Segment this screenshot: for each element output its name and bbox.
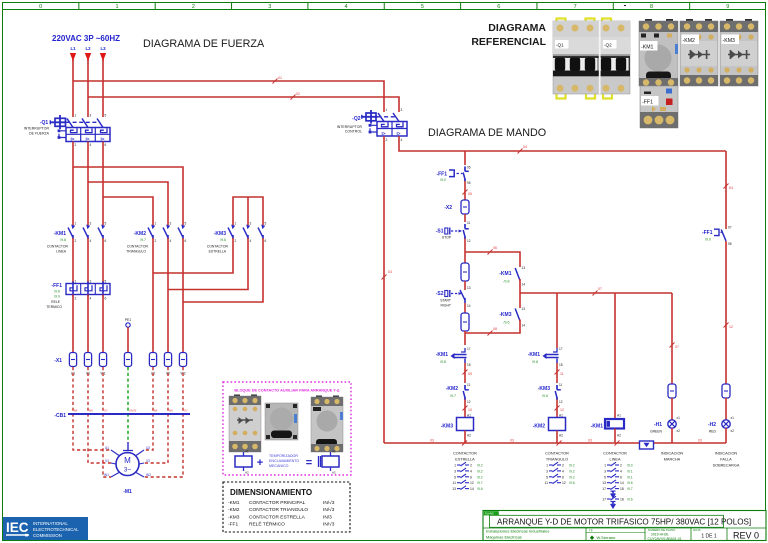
svg-text:BN: BN	[169, 409, 173, 413]
svg-text:4: 4	[250, 239, 252, 243]
svg-text:GREEN: GREEN	[650, 430, 663, 434]
svg-text:13: 13	[467, 286, 471, 290]
svg-text:DE FUERZA: DE FUERZA	[29, 131, 50, 135]
svg-text:-FF1: -FF1	[642, 100, 653, 106]
svg-text:3: 3	[90, 222, 92, 226]
svg-text:3: 3	[170, 222, 172, 226]
svg-text:W1: W1	[104, 473, 109, 477]
svg-text:14: 14	[467, 304, 471, 308]
svg-text:CONTACTOR PRINCIPAL: CONTACTOR PRINCIPAL	[249, 500, 306, 506]
svg-text:ARRANQUE Y-D DE MOTOR TRIFASIC: ARRANQUE Y-D DE MOTOR TRIFASICO 75HP/ 38…	[497, 517, 751, 526]
svg-text:-KM2: -KM2	[134, 231, 146, 237]
svg-text:-KM1: -KM1	[54, 231, 66, 237]
svg-text:0: 0	[39, 4, 42, 10]
KM3 NC contact 11-12	[538, 383, 563, 404]
pushbutton S1 STOP	[436, 221, 471, 243]
svg-text:96: 96	[467, 181, 471, 185]
svg-text:4: 4	[345, 4, 348, 10]
svg-text:x2: x2	[677, 429, 681, 433]
svg-text:9: 9	[726, 4, 729, 10]
svg-text:14: 14	[620, 481, 624, 485]
svg-text:-S1: -S1	[436, 229, 444, 235]
svg-text:/9.8: /9.8	[504, 280, 510, 284]
wire 07	[520, 292, 672, 294]
svg-text:12: 12	[559, 400, 563, 404]
svg-text:03: 03	[588, 439, 592, 443]
svg-text:DIAGRAMA: DIAGRAMA	[488, 22, 546, 34]
wire L2 feeder	[87, 60, 89, 117]
svg-text:-H1: -H1	[654, 422, 662, 428]
svg-text:-KM3: -KM3	[228, 514, 240, 520]
svg-text:06: 06	[493, 246, 497, 250]
svg-text:08: 08	[493, 327, 497, 331]
svg-text:Máquinas Eléctricas: Máquinas Eléctricas	[486, 535, 522, 540]
svg-text:2019-HHJE: 2019-HHJE	[651, 532, 669, 536]
svg-text:-KM3: -KM3	[441, 424, 453, 430]
svg-text:TP: TP	[589, 529, 593, 533]
svg-text:4: 4	[401, 138, 403, 142]
wire right rail from 04	[725, 151, 727, 225]
svg-text:18: 18	[620, 498, 624, 502]
wire feed to FF1 95	[464, 151, 466, 165]
svg-text:-Q1: -Q1	[556, 43, 564, 48]
contactor -KM2 power contacts	[126, 222, 186, 254]
photo contactor KM1 with FF1	[639, 19, 678, 128]
svg-text:4: 4	[90, 297, 92, 301]
FF1 NC contact 95-96	[436, 166, 470, 186]
svg-text:MECANICO: MECANICO	[269, 464, 289, 468]
wire 12 right rail	[725, 241, 727, 384]
svg-text:/9.0: /9.0	[440, 178, 446, 182]
svg-text:4: 4	[90, 239, 92, 243]
svg-text:6: 6	[105, 143, 107, 147]
svg-text:/9.1: /9.1	[627, 469, 633, 473]
KM1 latch contact 17-18 (col 2)	[528, 347, 563, 367]
svg-text:97: 97	[728, 226, 732, 230]
aux photo contactor left	[229, 395, 261, 453]
svg-text:RED: RED	[709, 430, 717, 434]
svg-text:A1: A1	[332, 450, 336, 454]
wire col3 from 07	[614, 293, 616, 419]
svg-text:-KM1: -KM1	[641, 45, 654, 51]
terminal above H2	[722, 384, 730, 398]
wire L3 feeder	[102, 60, 104, 117]
wire 01 L1 to Q2	[73, 81, 384, 112]
title block	[483, 511, 766, 542]
svg-text:A2: A2	[245, 471, 249, 475]
svg-text:I>: I>	[71, 136, 75, 141]
wires Q1 to KM1	[72, 142, 74, 226]
svg-text:-FF1: -FF1	[702, 230, 713, 236]
svg-text:18: 18	[620, 487, 624, 491]
wires KM3 to KM2 columns	[153, 238, 233, 273]
svg-text:V1: V1	[105, 459, 109, 463]
svg-text:1: 1	[155, 222, 157, 226]
svg-text:-FF1: -FF1	[228, 522, 238, 528]
svg-text:HOJA: HOJA	[693, 528, 701, 532]
svg-text:1: 1	[454, 464, 456, 468]
svg-text:/9.2: /9.2	[477, 464, 483, 468]
svg-text:-FF1: -FF1	[51, 283, 62, 289]
ground PE connector at motor	[127, 442, 129, 450]
svg-text:-KM3: -KM3	[723, 38, 736, 44]
svg-text:/9.2: /9.2	[569, 464, 575, 468]
svg-text:/9.6: /9.6	[54, 290, 60, 294]
svg-text:03: 03	[698, 439, 702, 443]
svg-text:GY: GY	[104, 409, 108, 413]
svg-text:8: 8	[650, 4, 653, 10]
svg-text:REV 0: REV 0	[733, 531, 759, 541]
svg-text:/9.8: /9.8	[60, 238, 66, 242]
wire top feed 04	[399, 136, 726, 151]
svg-text:LINEA: LINEA	[610, 458, 621, 462]
svg-text:/9.2: /9.2	[569, 469, 575, 473]
photo contactor KM3	[720, 19, 758, 86]
KM1 NO contact 13-14	[499, 263, 525, 293]
svg-text:-KM2: -KM2	[533, 424, 545, 430]
svg-text:6: 6	[265, 239, 267, 243]
wire to H2	[725, 398, 727, 420]
svg-text:M: M	[124, 456, 131, 465]
svg-text:98: 98	[728, 242, 732, 246]
wire coil KM2 to rail	[556, 431, 558, 444]
svg-text:+: +	[257, 457, 263, 469]
svg-text:5: 5	[546, 475, 548, 479]
svg-text:2: 2	[470, 464, 472, 468]
svg-text:03: 03	[388, 270, 392, 274]
svg-text:4: 4	[90, 143, 92, 147]
svg-text:1: 1	[546, 464, 548, 468]
terminal X2	[461, 200, 469, 214]
svg-text:-Q1: -Q1	[40, 120, 49, 126]
svg-text:W2: W2	[146, 473, 151, 477]
svg-text:-X1: -X1	[54, 358, 62, 364]
svg-text:12: 12	[729, 325, 733, 329]
svg-text:RELÉ TÉRMICO: RELÉ TÉRMICO	[249, 521, 285, 528]
wire X2 to S1	[464, 214, 466, 222]
svg-text:3: 3	[454, 469, 456, 473]
svg-text:1: 1	[75, 222, 77, 226]
svg-text:11: 11	[544, 481, 548, 485]
svg-text:17: 17	[467, 347, 471, 351]
aux photo timer block middle	[265, 403, 298, 440]
wire L3 to KM2 pole 1	[103, 197, 153, 225]
svg-text:11: 11	[467, 383, 471, 387]
svg-text:A2: A2	[467, 434, 471, 438]
FF1 NO contact 97-98	[702, 225, 732, 246]
svg-text:INDICACION: INDICACION	[661, 452, 684, 456]
svg-text:1: 1	[115, 4, 118, 10]
svg-text:=: =	[306, 457, 312, 469]
svg-text:-KM2: -KM2	[228, 507, 240, 513]
svg-text:ELECTROTECHNICAL: ELECTROTECHNICAL	[33, 527, 79, 532]
svg-text:/9.7: /9.7	[477, 481, 483, 485]
cross reference table contactor linea	[602, 452, 633, 508]
wires KM2 to X1	[152, 238, 154, 352]
svg-text:11: 11	[452, 481, 456, 485]
svg-text:LINEA: LINEA	[56, 250, 67, 254]
svg-text:W.Serrano: W.Serrano	[597, 535, 617, 540]
svg-text:INTERRUPTOR: INTERRUPTOR	[24, 126, 50, 130]
svg-text:Instalaciones Eléctricas Indus: Instalaciones Eléctricas Industriales	[486, 529, 549, 534]
wire S2 to terminal	[464, 303, 466, 313]
svg-text:5: 5	[185, 222, 187, 226]
svg-text:3: 3	[90, 280, 92, 284]
svg-text:/9.7: /9.7	[450, 394, 456, 398]
svg-text:A2: A2	[617, 434, 621, 438]
svg-text:6: 6	[185, 239, 187, 243]
svg-text:I>: I>	[101, 136, 105, 141]
svg-text:3: 3	[250, 222, 252, 226]
svg-text:/9.7: /9.7	[627, 487, 633, 491]
svg-text:6: 6	[620, 475, 622, 479]
svg-text:/9.6: /9.6	[569, 481, 575, 485]
svg-text:CONTACTOR: CONTACTOR	[603, 452, 627, 456]
svg-text:6: 6	[105, 239, 107, 243]
svg-text:4: 4	[470, 469, 472, 473]
svg-text:x1: x1	[731, 416, 735, 420]
svg-text:TRIANGULO: TRIANGULO	[546, 458, 568, 462]
svg-text:START: START	[440, 299, 451, 303]
svg-text:1: 1	[75, 280, 77, 284]
svg-text:5: 5	[105, 280, 107, 284]
svg-text:01: 01	[278, 76, 282, 80]
svg-text:12: 12	[560, 408, 564, 412]
svg-text:RIGHT: RIGHT	[440, 304, 451, 308]
svg-text:13: 13	[522, 307, 526, 311]
svg-text:/9.6: /9.6	[542, 394, 548, 398]
svg-text:1: 1	[386, 108, 388, 112]
svg-text:2: 2	[75, 239, 77, 243]
svg-text:RELE: RELE	[51, 300, 61, 304]
svg-text:-KM1: -KM1	[528, 352, 540, 358]
svg-text:/9.8: /9.8	[532, 360, 538, 364]
svg-text:-FF1: -FF1	[436, 171, 447, 177]
svg-text:04: 04	[729, 186, 733, 190]
svg-text:I>: I>	[382, 131, 386, 136]
photo MCB Q1 and Q2	[552, 19, 630, 99]
terminal above H1	[668, 384, 676, 398]
svg-text:17: 17	[602, 498, 606, 502]
svg-text:2: 2	[192, 4, 195, 10]
svg-text:CONTACTOR TRIANGULO: CONTACTOR TRIANGULO	[249, 507, 308, 513]
svg-text:x1: x1	[677, 416, 681, 420]
svg-text:3~: 3~	[124, 467, 132, 474]
KM2 NC contact 11-12	[446, 383, 471, 404]
svg-text:L1: L1	[70, 46, 76, 51]
svg-text:-Q2: -Q2	[604, 43, 612, 48]
wire L1 to KM2 pole 5	[73, 167, 183, 225]
contactor -KM3 power contacts	[207, 222, 267, 254]
cross reference table contactor triangulo	[544, 452, 574, 486]
contactor -KM1 power contacts	[47, 222, 107, 254]
svg-text:03: 03	[510, 439, 514, 443]
cross reference table contactor estrella	[452, 452, 483, 492]
svg-text:3: 3	[268, 4, 271, 10]
svg-text:/9.1: /9.1	[627, 475, 633, 479]
svg-text:03: 03	[430, 439, 434, 443]
svg-text:DIAGRAMA DE MANDO: DIAGRAMA DE MANDO	[428, 127, 546, 139]
svg-text:IN/3: IN/3	[323, 514, 332, 520]
svg-text:BLOQUE DE CONTACTO AUXILIAR PA: BLOQUE DE CONTACTO AUXILIAR PARA ARRANQU…	[234, 389, 339, 393]
KM3 contact 13-14	[499, 293, 525, 328]
svg-text:V2: V2	[146, 459, 150, 463]
svg-text:IN/√3: IN/√3	[323, 507, 335, 513]
dimensionamiento box	[223, 482, 350, 532]
svg-text:TEMPORIZADOR: TEMPORIZADOR	[269, 454, 298, 458]
svg-text:DIAGRAMA DE FUERZA: DIAGRAMA DE FUERZA	[143, 38, 265, 50]
breaker Q2 interruptor control	[337, 108, 407, 142]
svg-text:07: 07	[598, 287, 602, 291]
svg-text:-KM2: -KM2	[683, 38, 696, 44]
svg-text:/9.6: /9.6	[477, 487, 483, 491]
svg-text:14: 14	[470, 487, 474, 491]
PE wire to motor (green dashed)	[127, 367, 129, 442]
svg-text:5: 5	[265, 222, 267, 226]
svg-text:TRIANGULO: TRIANGULO	[126, 250, 146, 254]
svg-text:2: 2	[562, 464, 564, 468]
svg-text:11: 11	[560, 372, 564, 376]
svg-text:14: 14	[522, 324, 526, 328]
svg-text:-KM3: -KM3	[214, 231, 226, 237]
svg-text:6: 6	[105, 297, 107, 301]
wire coil KM1 to rail	[614, 429, 616, 444]
svg-text:L3: L3	[100, 46, 106, 51]
svg-text:x2: x2	[731, 429, 735, 433]
svg-text:1: 1	[235, 222, 237, 226]
svg-text:/9.7: /9.7	[140, 238, 146, 242]
svg-text:/9.6: /9.6	[220, 238, 226, 242]
svg-text:COMMISSION: COMMISSION	[33, 533, 62, 538]
svg-text:11: 11	[467, 221, 471, 225]
svg-text:PE1: PE1	[125, 318, 132, 322]
svg-text:95: 95	[467, 166, 471, 170]
svg-text:3: 3	[90, 114, 92, 118]
aux symbols: coil + timer = latched coil	[235, 450, 339, 475]
svg-text:220VAC 3P ~60HZ: 220VAC 3P ~60HZ	[52, 34, 120, 43]
svg-text:A2: A2	[332, 471, 336, 475]
wire 09	[464, 363, 466, 383]
wire to node 08	[464, 331, 466, 345]
svg-text:-KM1: -KM1	[436, 352, 448, 358]
wires KM1 to FF1	[72, 238, 74, 284]
svg-text:CONTACTOR: CONTACTOR	[453, 452, 477, 456]
wire to H1	[671, 398, 673, 420]
wire 02 L2 to Q2	[88, 97, 399, 112]
svg-text:L2: L2	[85, 46, 91, 51]
svg-text:6: 6	[497, 4, 500, 10]
svg-text:12: 12	[467, 400, 471, 404]
svg-text:/9.2: /9.2	[477, 475, 483, 479]
svg-text:2: 2	[155, 239, 157, 243]
svg-text:2: 2	[235, 239, 237, 243]
svg-text:CUY2AVVS-8BA01-01: CUY2AVVS-8BA01-01	[648, 537, 682, 541]
svg-text:A2: A2	[559, 434, 563, 438]
wire H1 to rail	[671, 428, 673, 443]
breaker Q1 interruptor de fuerza	[24, 114, 110, 148]
wire 10	[464, 400, 466, 418]
svg-text:5: 5	[105, 114, 107, 118]
svg-text:/9.9: /9.9	[54, 295, 60, 299]
wire bottom rail 03	[384, 442, 726, 444]
thermal relay FF1 (power)	[46, 280, 110, 310]
wire PE1 to X1	[127, 327, 129, 352]
svg-text:4: 4	[620, 469, 622, 473]
svg-text:-Q2: -Q2	[352, 116, 361, 122]
svg-text:IN/√3: IN/√3	[323, 500, 335, 506]
svg-text:4: 4	[562, 469, 564, 473]
svg-text:/9.6: /9.6	[627, 498, 633, 502]
wire left rail 03	[383, 136, 385, 443]
svg-text:6: 6	[470, 475, 472, 479]
svg-text:CONTACTOR: CONTACTOR	[127, 245, 149, 249]
wire col2 from 07	[556, 293, 558, 348]
svg-text:-M1: -M1	[123, 489, 132, 495]
svg-text:/9.0: /9.0	[627, 464, 633, 468]
svg-text:18: 18	[467, 363, 471, 367]
wires FF1 to X1	[72, 295, 74, 353]
svg-text:13: 13	[602, 481, 606, 485]
svg-text:04: 04	[523, 145, 527, 149]
svg-text:/9.6: /9.6	[627, 481, 633, 485]
svg-text:2: 2	[620, 464, 622, 468]
IEC logo	[3, 517, 88, 540]
svg-text:ESTRELLA: ESTRELLA	[455, 458, 475, 462]
wire 08 branch	[465, 322, 520, 333]
svg-text:1 DE 1: 1 DE 1	[701, 534, 717, 540]
svg-text:A1: A1	[617, 414, 621, 418]
svg-text:INDICACION: INDICACION	[715, 452, 738, 456]
svg-text:17: 17	[602, 487, 606, 491]
svg-text:-S2: -S2	[436, 291, 444, 297]
svg-text:12: 12	[562, 481, 566, 485]
terminal on main rail	[461, 263, 469, 281]
svg-text:A1: A1	[245, 450, 249, 454]
svg-text:2: 2	[386, 138, 388, 142]
svg-text:10: 10	[468, 408, 472, 412]
wire 11	[556, 363, 558, 383]
svg-text:05: 05	[468, 192, 472, 196]
svg-text:11: 11	[559, 383, 563, 387]
svg-text:CONTACTOR ESTRELLA: CONTACTOR ESTRELLA	[249, 514, 306, 520]
svg-text:12: 12	[467, 239, 471, 243]
svg-text:12: 12	[470, 481, 474, 485]
wire 05	[464, 181, 466, 200]
svg-text:3: 3	[546, 469, 548, 473]
svg-text:1: 1	[604, 464, 606, 468]
svg-text:I>: I>	[86, 136, 90, 141]
wire to S2	[464, 281, 466, 287]
svg-text:CONTACTOR: CONTACTOR	[545, 452, 569, 456]
svg-text:INTERNATIONAL: INTERNATIONAL	[33, 521, 68, 526]
wire col4 from 07	[671, 293, 673, 384]
svg-text:U1: U1	[105, 446, 109, 450]
svg-text:6: 6	[562, 475, 564, 479]
pushbutton S2 START	[436, 286, 471, 308]
svg-text:5: 5	[105, 222, 107, 226]
star point wire KM3	[233, 197, 263, 225]
svg-text:A1: A1	[467, 414, 471, 418]
svg-text:INTERRUPTOR: INTERRUPTOR	[337, 125, 363, 129]
wire L2 to KM2 pole 3	[88, 182, 168, 225]
svg-text:13: 13	[452, 487, 456, 491]
svg-text:CONTACTOR: CONTACTOR	[207, 245, 229, 249]
terminal strip X1	[54, 353, 186, 376]
svg-text:-KM1: -KM1	[228, 500, 240, 506]
svg-text:7: 7	[574, 4, 577, 10]
photo thermal relay FF1	[640, 86, 678, 128]
svg-text:5: 5	[454, 475, 456, 479]
